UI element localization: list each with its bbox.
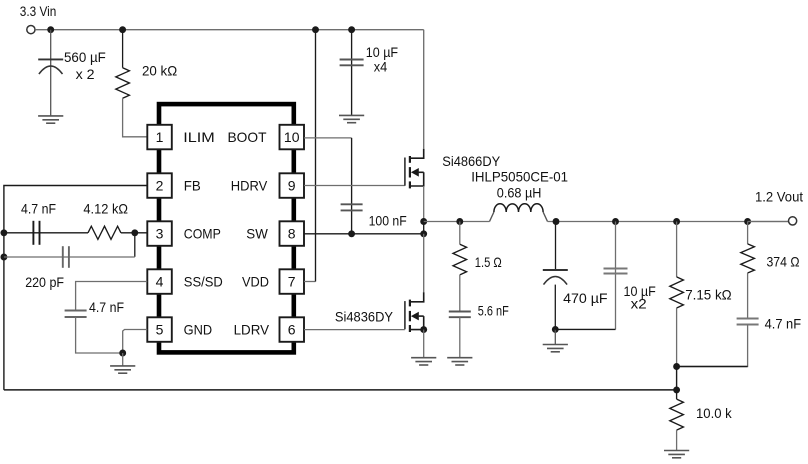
junction out-R5 xyxy=(744,218,751,225)
svg-text:6: 6 xyxy=(288,322,296,338)
resistor R5 374 Ohm xyxy=(741,244,755,273)
svg-text:x4: x4 xyxy=(374,59,388,75)
capacitor C6 100nF xyxy=(341,204,363,210)
svg-text:Si4836DY: Si4836DY xyxy=(335,309,394,325)
input terminal 3.3 Vin xyxy=(20,3,57,34)
svg-text:4.12 kΩ: 4.12 kΩ xyxy=(83,201,128,217)
label Q1 xyxy=(442,153,501,169)
IC U1 pin names xyxy=(183,129,269,338)
wire comp bottom branch xyxy=(4,256,135,258)
label C5 value xyxy=(89,299,124,315)
label R4 value xyxy=(685,287,732,303)
capacitor C10 4.7nF xyxy=(737,319,759,325)
label R5 value xyxy=(767,253,800,269)
junction Vin-C1 xyxy=(47,26,54,33)
capacitor C5 4.7nF xyxy=(65,311,87,318)
junction SW-C6 xyxy=(348,230,355,237)
wire Q1 source xyxy=(423,186,425,222)
wire Vout stub xyxy=(748,221,789,223)
svg-text:20 kΩ: 20 kΩ xyxy=(142,63,177,79)
svg-text:4.7 nF: 4.7 nF xyxy=(765,315,802,331)
label C7 value xyxy=(478,302,509,318)
svg-text:560 µF: 560 µF xyxy=(64,49,106,65)
junction out-C8 xyxy=(553,218,560,225)
wire C1 lead xyxy=(50,30,52,116)
junction SW-lower xyxy=(420,230,427,237)
svg-text:x2: x2 xyxy=(631,296,647,312)
svg-text:2: 2 xyxy=(156,178,164,194)
resistor R3 1.5 Ohm xyxy=(453,244,467,275)
wire R6 bottom lead xyxy=(676,430,678,450)
wire SW to inductor xyxy=(424,221,490,223)
svg-text:374 Ω: 374 Ω xyxy=(767,253,800,269)
IC U1 pin boxes xyxy=(147,125,304,342)
wire output rail xyxy=(548,221,789,223)
resistor R6 10.0k xyxy=(670,399,684,430)
svg-text:ILIM: ILIM xyxy=(183,129,215,145)
junction FB-comp-bottom xyxy=(0,254,7,261)
ground under R6 xyxy=(664,451,689,458)
resistor R1 20 kOhm xyxy=(116,68,130,99)
wire C8 bottom lead xyxy=(554,285,556,330)
svg-text:470 µF: 470 µF xyxy=(563,290,608,306)
wire C9 bottom xyxy=(555,328,615,330)
svg-text:5: 5 xyxy=(156,322,164,338)
junction gnd pin5 xyxy=(119,350,126,357)
svg-text:Si4866DY: Si4866DY xyxy=(442,153,501,169)
ground under C7 xyxy=(447,358,472,365)
svg-text:BOOT: BOOT xyxy=(228,129,267,145)
svg-text:1.5 Ω: 1.5 Ω xyxy=(475,254,502,270)
svg-text:0.68 µH: 0.68 µH xyxy=(497,184,542,200)
svg-text:SW: SW xyxy=(246,226,268,242)
ground under pin5 xyxy=(110,366,135,373)
svg-text:7: 7 xyxy=(288,274,296,290)
label C8 value xyxy=(563,290,608,306)
wire LDRV xyxy=(304,329,405,331)
svg-text:10 µF: 10 µF xyxy=(366,44,398,60)
svg-text:COMP: COMP xyxy=(184,226,221,242)
svg-text:VDD: VDD xyxy=(242,274,269,290)
svg-text:5.6 nF: 5.6 nF xyxy=(478,302,509,318)
IC U1 pin numbers xyxy=(156,129,300,338)
svg-text:100 nF: 100 nF xyxy=(369,212,407,228)
wire C8 gnd stub xyxy=(554,329,556,344)
junction Q2 source xyxy=(420,326,427,333)
wire comp junction riser xyxy=(121,233,147,257)
svg-text:4.7 nF: 4.7 nF xyxy=(21,201,56,217)
label C9 value xyxy=(624,283,656,311)
svg-text:GND: GND xyxy=(184,322,213,338)
wire Q2 source to gnd xyxy=(423,330,425,358)
svg-text:10.0 k: 10.0 k xyxy=(696,405,733,421)
wire HDRV xyxy=(304,185,405,187)
svg-text:8: 8 xyxy=(288,226,296,242)
svg-text:1: 1 xyxy=(156,129,164,145)
junction fb-lower xyxy=(673,386,680,393)
label C10 value xyxy=(765,315,802,331)
svg-text:IHLP5050CE-01: IHLP5050CE-01 xyxy=(471,168,568,184)
junction Vin-VDD xyxy=(312,26,319,33)
label R6 value xyxy=(696,405,733,421)
label C2 value xyxy=(366,44,398,75)
svg-text:4: 4 xyxy=(156,274,164,290)
capacitor C1 560uF x2 xyxy=(38,59,63,74)
label L1 value xyxy=(497,184,542,200)
wire R4 bottom lead xyxy=(676,308,678,367)
wire R5 top lead xyxy=(747,222,749,244)
capacitor C2 10uF x4 xyxy=(340,60,364,66)
wire R6 top lead xyxy=(676,390,678,399)
junction Vin-C2 xyxy=(348,26,355,33)
resistor R4 7.15k xyxy=(670,277,684,308)
wire fb cross xyxy=(677,366,748,368)
wire bottom feedback xyxy=(4,389,677,391)
ground under C1 xyxy=(38,116,63,123)
wire R4 top lead xyxy=(676,222,678,277)
capacitor C7 5.6nF xyxy=(449,312,471,318)
wire R3-C7 xyxy=(459,275,461,312)
junction out-C9 xyxy=(612,218,619,225)
ground under Q2 xyxy=(411,358,436,365)
svg-text:FB: FB xyxy=(184,178,201,194)
svg-text:3: 3 xyxy=(156,226,164,242)
capacitor C8 470uF xyxy=(543,270,568,285)
junction SW-upper xyxy=(420,218,427,225)
wire R5-C10 xyxy=(747,273,749,319)
wire R1 to pin1 xyxy=(123,98,148,137)
wire C10 down xyxy=(677,325,748,367)
ground under C2 xyxy=(339,115,364,122)
junction comp xyxy=(131,229,138,236)
wire R3 top lead xyxy=(459,222,461,245)
svg-text:220 pF: 220 pF xyxy=(25,274,64,290)
svg-text:7.15 kΩ: 7.15 kΩ xyxy=(685,287,732,303)
wire SS branch xyxy=(76,282,148,311)
label C1 value xyxy=(64,49,106,82)
svg-text:LDRV: LDRV xyxy=(234,322,270,338)
transistor Q2 Si4836DY xyxy=(405,292,424,332)
svg-text:HDRV: HDRV xyxy=(231,178,268,194)
capacitor C4 220pF xyxy=(63,246,69,268)
wire SW vertical xyxy=(423,222,425,234)
label R2 value xyxy=(83,201,128,217)
wire fb drop xyxy=(676,367,678,390)
junction out-R4 xyxy=(673,218,680,225)
wire SW pin8 xyxy=(304,233,424,235)
junction fb-upper xyxy=(673,363,680,370)
svg-text:3.3 Vin: 3.3 Vin xyxy=(20,3,57,19)
label C6 value xyxy=(369,212,407,228)
junction SW-snubber xyxy=(456,218,463,225)
wire pin5 GND xyxy=(123,330,148,354)
wire C8 top lead xyxy=(555,222,557,271)
wire BOOT xyxy=(304,137,352,139)
wire VDD xyxy=(304,30,316,282)
wire C5 to gnd junction xyxy=(76,317,123,353)
junction Vin-R1 xyxy=(119,26,126,33)
wire C7 to gnd xyxy=(459,317,461,358)
wire boot cap lead xyxy=(351,138,353,234)
transistor Q1 Si4866DY xyxy=(405,149,424,189)
wire comp top branch xyxy=(4,232,88,234)
capacitor C9 10uF x2 xyxy=(604,269,628,274)
wire R1 top lead xyxy=(122,30,124,68)
wire C9 lead xyxy=(615,222,617,330)
label C4 value xyxy=(25,274,64,290)
svg-text:9: 9 xyxy=(288,178,296,194)
label L1 part xyxy=(471,168,568,184)
IC U1 body xyxy=(159,104,294,352)
output terminal 1.2 Vout xyxy=(755,189,803,225)
ground under C8 xyxy=(543,345,568,352)
svg-text:SS/SD: SS/SD xyxy=(184,274,223,290)
label R1 value xyxy=(142,63,177,79)
inductor L1 0.68uH xyxy=(490,204,548,222)
wire C2 lead xyxy=(351,30,353,116)
svg-text:4.7 nF: 4.7 nF xyxy=(89,299,124,315)
junction FB-comp-top xyxy=(0,229,7,236)
resistor R2 4.12k xyxy=(88,226,121,239)
label R3 value xyxy=(475,254,502,270)
junction C8-C9 gnd xyxy=(552,326,559,333)
wire gnd stub xyxy=(122,353,124,366)
wire FB pin2 to left edge xyxy=(4,186,147,390)
wire Q1 drain xyxy=(423,30,425,149)
svg-text:1.2 Vout: 1.2 Vout xyxy=(755,189,803,205)
label Q2 xyxy=(335,309,394,325)
label C3 value xyxy=(21,201,56,217)
svg-text:x 2: x 2 xyxy=(76,66,95,82)
svg-text:10: 10 xyxy=(284,129,300,145)
capacitor C3 4.7nF xyxy=(33,221,39,245)
wire Q2 drain xyxy=(423,234,425,292)
wire Vin rail xyxy=(35,29,424,31)
